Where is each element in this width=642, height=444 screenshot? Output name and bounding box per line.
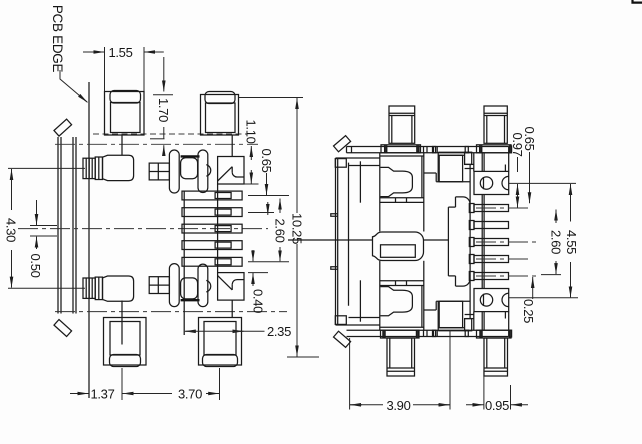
svg-text:2.60: 2.60 (548, 230, 563, 254)
svg-text:2.60: 2.60 (272, 218, 287, 242)
svg-text:0.65: 0.65 (522, 126, 537, 150)
svg-text:2.35: 2.35 (267, 324, 291, 339)
svg-text:1.10: 1.10 (243, 119, 258, 143)
svg-text:0.65: 0.65 (259, 148, 274, 172)
svg-text:0.50: 0.50 (28, 253, 43, 277)
svg-text:1.70: 1.70 (156, 98, 171, 122)
svg-text:0.95: 0.95 (485, 398, 509, 413)
svg-text:0.40: 0.40 (250, 289, 265, 313)
svg-text:3.90: 3.90 (386, 398, 410, 413)
svg-text:PCB EDGE: PCB EDGE (50, 5, 65, 73)
svg-text:0.25: 0.25 (521, 299, 536, 323)
svg-text:4.55: 4.55 (564, 230, 579, 254)
svg-text:1.37: 1.37 (90, 386, 114, 401)
svg-text:3.70: 3.70 (178, 386, 202, 401)
svg-text:1.55: 1.55 (108, 45, 132, 60)
svg-text:4.30: 4.30 (3, 218, 18, 242)
